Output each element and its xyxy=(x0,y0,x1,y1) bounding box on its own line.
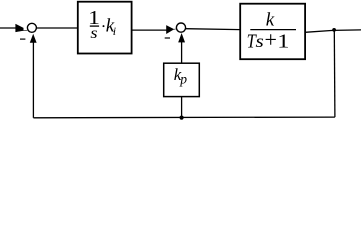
label: multiplication dot xyxy=(103,25,105,27)
minus sign at summing junction 1 xyxy=(20,38,25,40)
up-arrow from kp into summing junction 2 xyxy=(179,34,185,42)
summing junction 1 xyxy=(27,23,36,32)
wire: integrator to summing junction 2 xyxy=(132,29,167,31)
wire: summing junction 2 to plant block xyxy=(186,28,241,31)
wire: kp block to bottom node xyxy=(181,97,183,118)
feedback up-arrow into summing junction 1 xyxy=(30,35,36,43)
svg-text:s: s xyxy=(256,31,265,51)
arrowhead into summing junction 2 xyxy=(167,26,176,34)
wire: up-arrow to kp block xyxy=(181,42,183,63)
wire: right vertical feedback xyxy=(333,30,336,117)
node: output junction dot xyxy=(332,28,336,32)
svg-text:p: p xyxy=(179,71,187,86)
wire: left vertical feedback xyxy=(32,42,34,118)
block: plant k/(Ts+1) xyxy=(240,4,305,60)
wire: bottom feedback line xyxy=(33,116,335,119)
block: kp xyxy=(164,63,200,96)
block: integrator 1/s·ki xyxy=(78,2,132,54)
label: fraction bar 1/s xyxy=(90,25,99,27)
summing junction 2 xyxy=(176,23,185,32)
wire: output line xyxy=(305,30,361,32)
svg-text:1: 1 xyxy=(277,30,289,52)
svg-text:s: s xyxy=(90,24,97,42)
wire: input line xyxy=(0,27,17,29)
minus sign at summing junction 2 xyxy=(165,37,170,39)
arrowhead into summing junction 1 xyxy=(16,24,28,32)
node: junction dot below kp xyxy=(180,116,184,120)
wire: summing junction 1 to integrator block xyxy=(37,27,78,29)
svg-text:+: + xyxy=(265,27,277,52)
label: plant fraction bar xyxy=(250,29,296,31)
svg-text:i: i xyxy=(113,24,116,38)
